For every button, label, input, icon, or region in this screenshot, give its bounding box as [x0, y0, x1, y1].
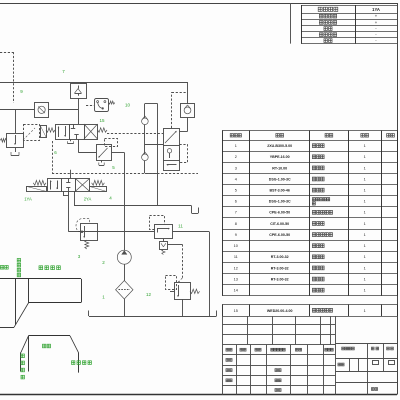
- wire main pressure line H1: [0, 82, 188, 84]
- svg-text:YBPE-16.00: YBPE-16.00: [270, 155, 290, 159]
- svg-text:WED20.00-4.00: WED20.00-4.00: [267, 309, 293, 313]
- wire valve4 B port to H4: [74, 191, 76, 206]
- valve 11 drain check: [163, 239, 165, 242]
- spring of valve 13: [85, 240, 89, 249]
- cycle vertical 2: [28, 279, 30, 303]
- svg-text:8: 8: [235, 222, 237, 226]
- wire valve4 A port to H5: [68, 191, 70, 231]
- check valve 10: [181, 104, 195, 118]
- label 向上回程 vertical: [21, 354, 24, 358]
- page border top: [0, 3, 397, 5]
- svg-text:1YA: 1YA: [24, 197, 32, 202]
- sequence valve 5: [97, 145, 112, 161]
- wire valve6 to valve5: [78, 139, 80, 153]
- 阶段标记 共 张 第 张: [342, 347, 345, 350]
- wire H5: [69, 231, 210, 233]
- solenoid action table: [301, 5, 397, 7]
- svg-text:1: 1: [364, 266, 366, 270]
- svg-text:CPE-6.00-50: CPE-6.00-50: [269, 233, 290, 237]
- sequence valve 11: [150, 216, 165, 230]
- back-pressure valve 13: [81, 224, 98, 241]
- row 快速回程: [319, 33, 323, 37]
- wire dashed enclosure left: [52, 141, 54, 174]
- wire valve11 to pilot: [167, 244, 182, 246]
- row 快速下降: [319, 14, 323, 18]
- svg-text:12: 12: [234, 266, 238, 270]
- check valve pair 8: [145, 103, 158, 105]
- junction dot: [81, 231, 83, 233]
- spring of valve 12: [190, 289, 200, 293]
- svg-text:1: 1: [364, 211, 366, 215]
- wire V1 down to check valve 10: [187, 82, 189, 104]
- parts list table: [222, 130, 397, 132]
- svg-text:7: 7: [235, 211, 237, 215]
- svg-text:1: 1: [364, 289, 366, 293]
- part row 15 (separate): [222, 304, 397, 306]
- svg-text:RT-3.00-32: RT-3.00-32: [271, 266, 289, 270]
- cycle lower trapezoid: [29, 335, 71, 337]
- wire dashed to pressure switch: [86, 105, 94, 107]
- 比例 row with small boxes: [338, 363, 341, 366]
- wire valve5 to pump line: [112, 152, 125, 154]
- pump 2: [117, 250, 131, 264]
- row 工作下压: [319, 21, 323, 25]
- svg-text:10: 10: [234, 244, 238, 248]
- wire return to tank: [209, 232, 211, 316]
- svg-text:11: 11: [234, 255, 238, 259]
- dashed pilot box near valve 3: [24, 125, 40, 141]
- svg-text:1: 1: [235, 144, 237, 148]
- title block header row 标记 处数 分区 更改文件号 签名 年月日: [226, 348, 229, 351]
- wire dashed pilot x171: [171, 92, 173, 128]
- relief valve 12: [175, 283, 191, 300]
- svg-text:2XU-B300-5.00: 2XU-B300-5.00: [267, 144, 292, 148]
- svg-text:15: 15: [234, 309, 238, 313]
- pressure switch 15: [95, 99, 109, 112]
- wire H2 left: [0, 109, 35, 111]
- label 保压: [43, 344, 46, 348]
- svg-text:1: 1: [364, 144, 366, 148]
- svg-text:RT-10.00: RT-10.00: [272, 166, 287, 170]
- label 滑台停止: [39, 266, 43, 270]
- cycle diagonal: [14, 303, 29, 328]
- svg-text:11: 11: [178, 224, 183, 229]
- svg-text:4: 4: [235, 177, 237, 181]
- svg-text:DSG-1.00-3C: DSG-1.00-3C: [269, 177, 291, 181]
- svg-text:12: 12: [146, 292, 152, 297]
- check valve 7: [71, 84, 87, 99]
- solenoid valve 6: [41, 126, 47, 138]
- title block right section: [335, 343, 397, 345]
- valve 4 drain: [63, 191, 65, 195]
- svg-text:BST-3.00-46: BST-3.00-46: [270, 189, 290, 193]
- wire drop to relief valve 3: [15, 109, 17, 133]
- wire H2 right: [49, 109, 78, 111]
- svg-text:1: 1: [364, 255, 366, 259]
- cycle right vertical: [81, 279, 83, 303]
- dashed pilot box valve 5: [105, 139, 118, 147]
- wire pump pressure line: [124, 153, 126, 251]
- dashed pilot box right of prefill: [180, 145, 188, 163]
- svg-text:1: 1: [364, 309, 366, 313]
- svg-text:10: 10: [125, 103, 131, 108]
- valve 6 drain: [70, 139, 72, 141]
- table margin line: [290, 3, 292, 44]
- cycle mid line: [29, 302, 81, 304]
- svg-text:1: 1: [364, 166, 366, 170]
- svg-text:3: 3: [235, 166, 237, 170]
- cycle lower-left line: [0, 327, 14, 329]
- cycle fast-down vertical: [15, 279, 17, 325]
- row 停止: [324, 39, 328, 43]
- wire dashed pilot y133: [107, 133, 163, 135]
- tank line: [89, 316, 217, 318]
- cycle top line: [0, 278, 81, 280]
- svg-text:5: 5: [235, 189, 237, 193]
- svg-text:1: 1: [364, 233, 366, 237]
- svg-text:CIT-6.00-50: CIT-6.00-50: [270, 222, 289, 226]
- svg-text:13: 13: [234, 277, 238, 281]
- solenoid valve 4: [27, 187, 47, 192]
- svg-text:1: 1: [364, 155, 366, 159]
- pilot operated valve (prefill): [164, 129, 180, 171]
- wire H4: [74, 205, 192, 207]
- svg-text:14: 14: [234, 289, 238, 293]
- svg-text:1: 1: [364, 244, 366, 248]
- dashed pilot box 12: [166, 276, 177, 290]
- wire valve4 top stub: [70, 170, 72, 179]
- wire dashed enclosure bottom: [52, 173, 198, 175]
- svg-text:1: 1: [364, 200, 366, 204]
- wire V1 to prefill: [187, 118, 189, 132]
- row 保压: [324, 27, 328, 31]
- page border right: [397, 3, 399, 395]
- svg-text:2: 2: [235, 155, 237, 159]
- wire valve12 to tank: [182, 299, 184, 316]
- title block grid: [222, 324, 335, 326]
- svg-text:1: 1: [364, 222, 366, 226]
- pilot operated check valve 9: [35, 103, 49, 118]
- relief valve 3: [7, 134, 24, 148]
- svg-text:1: 1: [364, 277, 366, 281]
- svg-text:1: 1: [364, 177, 366, 181]
- wire dashed pilot down: [182, 244, 184, 278]
- svg-text:CPE-6.00-50: CPE-6.00-50: [269, 211, 290, 215]
- svg-text:15: 15: [99, 118, 105, 123]
- bottom cell label: [371, 388, 374, 391]
- svg-text:DSG-1.00-3C: DSG-1.00-3C: [269, 200, 291, 204]
- page border bottom: [0, 394, 397, 396]
- svg-text:1YA: 1YA: [372, 7, 380, 12]
- svg-text:6: 6: [235, 200, 237, 204]
- svg-text:RT-3.00-32: RT-3.00-32: [271, 277, 289, 281]
- drain cup on H4: [191, 206, 193, 213]
- label 快速下降 vertical: [17, 259, 20, 263]
- wire right column to H4: [157, 104, 159, 206]
- label 向下退回: [72, 361, 75, 365]
- label 压制: [0, 266, 3, 270]
- svg-text:9: 9: [235, 233, 237, 237]
- wire dashed pilot top-left H: [0, 52, 13, 54]
- wire filter to tank: [124, 299, 126, 316]
- svg-text:2YA: 2YA: [84, 197, 92, 202]
- wire dashed pilot top-left V: [13, 52, 15, 103]
- svg-text:1: 1: [364, 189, 366, 193]
- 设计 校核 工艺 批准 labels: [226, 359, 229, 362]
- wire pump to filter: [124, 264, 126, 280]
- svg-text:RT-3.00-32: RT-3.00-32: [271, 255, 289, 259]
- wire H3 to prefill valve: [145, 144, 163, 146]
- wire check7 to valve6: [78, 98, 80, 124]
- parts table header 件号 型号 名称 数量 备注: [230, 134, 233, 137]
- header 动作名称 / 1YA: [318, 7, 322, 11]
- filter 1: [116, 281, 133, 300]
